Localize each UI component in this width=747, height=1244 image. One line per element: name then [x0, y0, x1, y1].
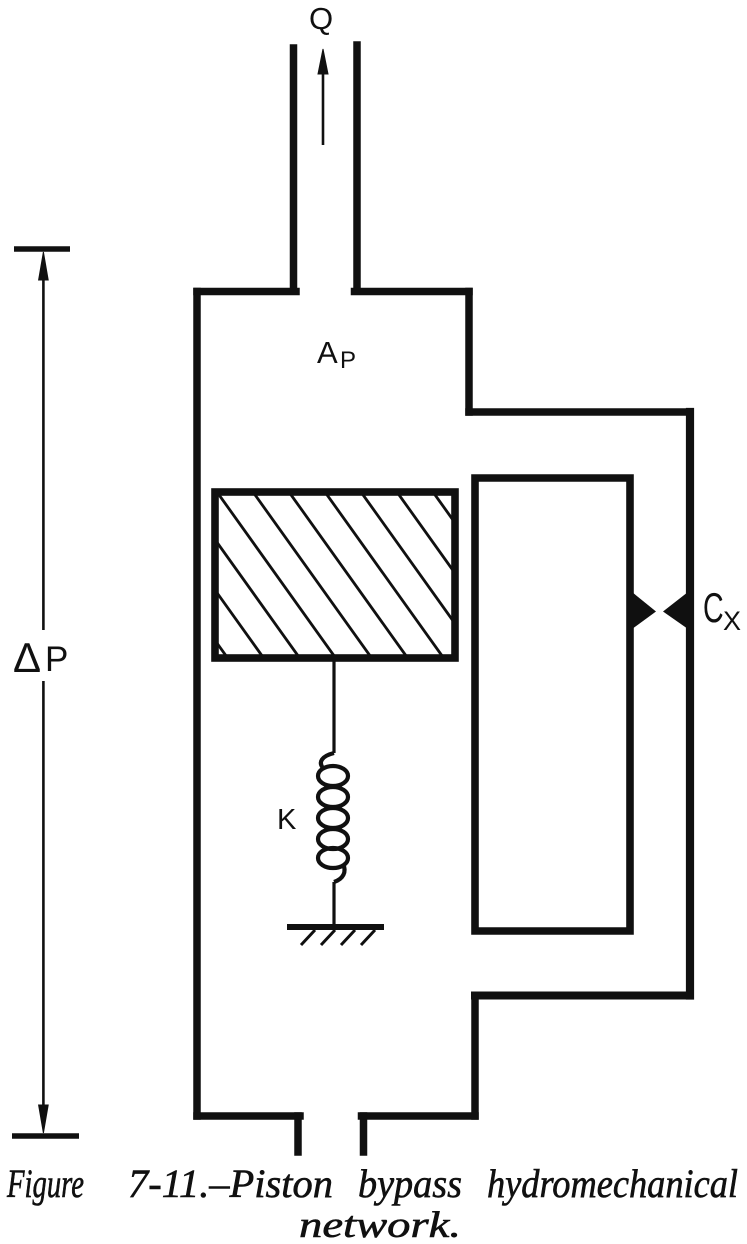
- dimension line ΔP: bottom cap: [12, 1133, 79, 1139]
- wire: bottom outlet tube left wall: [294, 1116, 302, 1152]
- svg-text:X: X: [723, 606, 741, 636]
- wire: bypass upper branch: [469, 408, 690, 416]
- wire: piston rod: [332, 658, 335, 753]
- svg-text:K: K: [277, 804, 297, 836]
- wire: cylinder bottom edge right segment: [362, 1112, 476, 1120]
- wire: spring lower lead: [332, 882, 335, 926]
- wire: cylinder lower right wall: [471, 996, 479, 1117]
- wire: cylinder upper right wall: [465, 292, 473, 413]
- wire: top inlet tube left wall: [290, 48, 298, 288]
- node: bypass island chamber wall: [475, 478, 630, 931]
- wire: bypass outer right wall: [686, 412, 694, 996]
- wire: cylinder top edge right segment: [355, 288, 470, 296]
- svg-text:C: C: [703, 583, 724, 631]
- svg-text:P: P: [340, 347, 356, 374]
- svg-text:network.: network.: [299, 1205, 461, 1244]
- svg-text:hydromechanical: hydromechanical: [487, 1161, 738, 1206]
- valve Cx (orifice): [632, 592, 688, 629]
- svg-text:Q: Q: [309, 1, 333, 36]
- dimension line ΔP: lower shaft with down arrowhead: [39, 681, 49, 1133]
- wire: cylinder bottom edge left segment: [197, 1112, 300, 1120]
- dimension line ΔP: upper shaft with up arrowhead: [39, 252, 49, 630]
- wire: bottom outlet tube right wall: [360, 1116, 368, 1152]
- svg-text:Δ: Δ: [13, 634, 41, 681]
- wire: bypass lower branch: [475, 992, 690, 1000]
- svg-text:bypass: bypass: [358, 1161, 462, 1206]
- dimension line ΔP: top cap: [14, 246, 70, 252]
- ground: [287, 927, 384, 945]
- flow arrow Q: [318, 49, 328, 145]
- wire: cylinder left wall: [193, 292, 201, 1117]
- spring K: [318, 753, 348, 882]
- svg-text:Figure: Figure: [6, 1161, 84, 1206]
- svg-text:7-11.–Piston: 7-11.–Piston: [128, 1161, 333, 1206]
- wire: top inlet tube right wall: [353, 45, 361, 288]
- piston P (hatched): [37, 492, 552, 658]
- svg-text:P: P: [45, 640, 68, 679]
- svg-text:A: A: [317, 335, 338, 370]
- wire: cylinder top edge left segment: [197, 288, 296, 296]
